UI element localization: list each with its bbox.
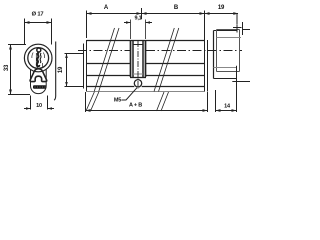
svg-text:M5: M5 bbox=[114, 97, 121, 103]
knob right face gray bbox=[239, 30, 241, 72]
dim 9,1 extensions bbox=[131, 20, 146, 40]
break mark left bottom bbox=[86, 92, 99, 111]
dim A/B boundary tick bbox=[141, 8, 143, 19]
knob neck bbox=[213, 31, 215, 79]
logo text bar bbox=[33, 85, 46, 89]
dim 10 extension ticks bbox=[31, 96, 48, 110]
dim A+B extensions bbox=[86, 92, 208, 112]
M5 leader bbox=[122, 88, 137, 100]
side view bottom edge bbox=[87, 91, 205, 93]
knob left face gray bbox=[216, 30, 218, 72]
svg-text:19: 19 bbox=[58, 66, 64, 73]
svg-text:9,1: 9,1 bbox=[134, 16, 141, 22]
dim arrows top row bbox=[87, 12, 239, 15]
logo bar specks bbox=[35, 86, 46, 88]
svg-text:33: 33 bbox=[4, 64, 10, 71]
dim 33 extension lines bbox=[8, 45, 30, 95]
logo omega outline bbox=[30, 69, 47, 82]
cam plate edge bbox=[133, 44, 143, 46]
dim Ø17 line bbox=[25, 22, 52, 24]
cam bottom edge bbox=[130, 77, 146, 79]
centerline axis bbox=[78, 50, 242, 52]
knob inner gray lines bbox=[214, 38, 242, 68]
knob top edge black segment bbox=[214, 30, 237, 32]
knob bottom gray bbox=[217, 71, 240, 73]
svg-text:A + B: A + B bbox=[129, 102, 142, 108]
front view outer circle bbox=[24, 44, 52, 72]
side view inner line 75 bbox=[87, 75, 205, 77]
knob bottom right corner line bbox=[232, 81, 250, 83]
cam inner sides bbox=[133, 40, 143, 77]
knob top gray bbox=[217, 29, 240, 31]
dim row line A B 19 bbox=[87, 13, 239, 15]
svg-text:10: 10 bbox=[36, 103, 42, 109]
knob flange bottom edge bbox=[214, 78, 238, 80]
body edge behind face bbox=[54, 42, 56, 101]
knob top right corner line bbox=[243, 29, 251, 31]
break mark left body bbox=[94, 28, 119, 92]
dim A+B line bbox=[86, 110, 208, 112]
keyway dark profile bbox=[37, 48, 41, 52]
M5 screw hole circle bbox=[134, 80, 141, 87]
break mark right bottom bbox=[157, 92, 169, 111]
dim 19 left line bbox=[66, 54, 68, 87]
dim 9,1 line arrows bbox=[124, 22, 152, 24]
dim 19 top right extension bbox=[205, 11, 243, 41]
svg-text:Ø 17: Ø 17 bbox=[32, 12, 44, 18]
knob right face black top segment bbox=[236, 24, 238, 32]
dim A extension bbox=[86, 11, 88, 39]
front view inner circle (plug) bbox=[28, 48, 49, 69]
knob face cross bar bbox=[233, 27, 242, 29]
dim 33 line bbox=[10, 45, 12, 95]
dim 14 line bbox=[216, 110, 237, 112]
svg-text:19: 19 bbox=[218, 5, 225, 11]
dim Ø17 extension ticks bbox=[25, 19, 52, 45]
side view inner line 86 bbox=[87, 86, 205, 88]
side view left end face bbox=[84, 40, 87, 92]
body right end faces bbox=[205, 40, 208, 92]
keyway side marks bbox=[32, 53, 45, 59]
cam vertical centerline bbox=[137, 41, 139, 89]
cam outer sides bbox=[131, 40, 146, 77]
cam inner gray line bbox=[133, 73, 143, 75]
dim 10 line with outside arrows bbox=[24, 108, 54, 110]
profile body flanks bbox=[31, 69, 47, 93]
dim 14 extensions bbox=[215, 90, 217, 112]
side view top edge bbox=[87, 40, 205, 42]
dim 19 left extensions bbox=[65, 54, 84, 87]
side view inner line 63 bbox=[87, 63, 205, 65]
break mark right body bbox=[154, 28, 179, 92]
knob right face black bottom segment and 14 extension bbox=[236, 66, 238, 112]
